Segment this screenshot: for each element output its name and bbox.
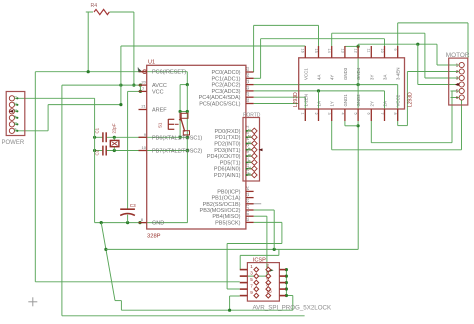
svg-text:6: 6 xyxy=(367,113,371,115)
svg-text:PB4(MISO): PB4(MISO) xyxy=(212,214,240,220)
label U1 left pin numbers xyxy=(137,66,147,222)
svg-text:R4: R4 xyxy=(91,3,98,9)
svg-text:3: 3 xyxy=(13,109,17,111)
svg-text:MOTOR: MOTOR xyxy=(446,52,470,59)
connector ICSP xyxy=(240,257,332,311)
resistor R4 xyxy=(91,3,110,14)
wire VCC2 below jog xyxy=(398,121,408,126)
stub PB2 gray mark xyxy=(250,203,261,205)
wire GND diag step h xyxy=(115,300,121,302)
wire 3-4EN riser xyxy=(397,23,399,46)
wire VCC riser to top xyxy=(120,46,122,105)
svg-text:S1: S1 xyxy=(158,122,163,128)
svg-text:5: 5 xyxy=(13,122,17,124)
svg-text:2: 2 xyxy=(13,102,17,104)
svg-text:PD1(TXD): PD1(TXD) xyxy=(215,135,241,141)
wire 1A drop xyxy=(318,91,320,121)
svg-text:7: 7 xyxy=(250,284,253,289)
wire ICSP right bus xyxy=(285,268,288,297)
svg-text:24: 24 xyxy=(246,73,250,77)
svg-text:3-4EN: 3-4EN xyxy=(396,68,401,80)
wire 4A drop xyxy=(318,25,320,46)
svg-text:PD0(RXD): PD0(RXD) xyxy=(215,129,241,135)
svg-text:3: 3 xyxy=(250,271,253,276)
wire GND3-GND4 jumper xyxy=(345,45,360,48)
svg-text:2: 2 xyxy=(246,126,250,128)
wire 3-4EN top run xyxy=(398,22,468,24)
svg-text:AVCC: AVCC xyxy=(152,83,167,89)
wire XTAL1 right lead xyxy=(107,136,188,139)
svg-text:7: 7 xyxy=(380,113,384,115)
label U1 left pin names xyxy=(152,70,202,227)
wire MOTOR6 riser xyxy=(461,100,463,150)
svg-text:VCC: VCC xyxy=(152,89,164,95)
connector PORTD xyxy=(243,113,263,182)
wire 3A drop xyxy=(384,39,386,46)
svg-text:POWER: POWER xyxy=(2,140,25,146)
wire PC3 row xyxy=(254,89,385,92)
label U1 right pin numbers xyxy=(246,67,250,222)
wire VCC decoupling drop xyxy=(127,91,129,208)
wire GND rise to ICSP bus xyxy=(286,296,292,311)
wire 2A drop xyxy=(384,91,386,121)
node switch top rail xyxy=(179,110,189,113)
wire PB4 drop xyxy=(266,216,268,276)
svg-text:PC1(ADC1): PC1(ADC1) xyxy=(211,76,240,82)
capacitor C1 xyxy=(95,127,107,142)
wire ICSP pin1 jog h xyxy=(240,254,279,256)
wire R4 right vertical xyxy=(132,12,135,87)
connector POWER xyxy=(2,92,25,146)
crystal Q1 xyxy=(110,137,119,150)
svg-text:PD6(AIN0): PD6(AIN0) xyxy=(214,167,241,173)
wire GND left vertical xyxy=(94,98,96,222)
wire 1Y drop xyxy=(331,121,333,150)
wire MOTOR1 lead xyxy=(437,64,451,66)
wire ladder right xyxy=(186,85,188,112)
wire GND bus riser right xyxy=(357,126,359,250)
svg-text:2: 2 xyxy=(314,113,318,115)
wire R4 right lead xyxy=(110,11,134,13)
wire 4Y top run xyxy=(332,32,425,34)
label U1 right pin names xyxy=(199,70,241,226)
wire 4Y riser xyxy=(331,33,333,46)
wire GND column inside U1 xyxy=(186,151,188,223)
svg-text:14: 14 xyxy=(327,49,331,53)
svg-text:23: 23 xyxy=(246,67,250,71)
svg-text:27: 27 xyxy=(246,92,250,96)
svg-text:1-2EN: 1-2EN xyxy=(303,94,308,106)
wire ICSP pin1 jog v2 xyxy=(239,255,241,269)
svg-text:PC5(ADC5/SCL): PC5(ADC5/SCL) xyxy=(199,102,240,108)
svg-text:PC6(/RESET): PC6(/RESET) xyxy=(152,70,186,76)
svg-text:10: 10 xyxy=(266,289,272,294)
svg-text:C1: C1 xyxy=(95,127,100,133)
wire 1Y run xyxy=(332,149,462,151)
svg-text:4: 4 xyxy=(13,115,17,117)
wire PB3 row xyxy=(254,209,275,211)
wire PC0 to 4A xyxy=(254,24,319,26)
wire POWER pin1 to GND xyxy=(17,97,94,99)
svg-text:9: 9 xyxy=(250,290,253,295)
svg-text:PB7(XTAL2/TOSC2): PB7(XTAL2/TOSC2) xyxy=(152,149,202,155)
wire MOTOR1 drop xyxy=(436,44,438,65)
svg-text:PD3(INT1): PD3(INT1) xyxy=(214,148,240,154)
svg-text:GND4: GND4 xyxy=(356,67,361,80)
wire PB5 drop2 xyxy=(226,244,228,290)
svg-text:6: 6 xyxy=(246,151,250,153)
svg-text:U1: U1 xyxy=(148,60,155,66)
wire GND diag step v xyxy=(120,301,122,311)
svg-text:16: 16 xyxy=(301,49,305,53)
wire MOTOR5 lead xyxy=(452,90,459,92)
svg-text:6: 6 xyxy=(13,128,17,130)
wire 1-2EN drop xyxy=(304,97,306,121)
svg-text:8: 8 xyxy=(393,113,397,115)
wire PB5 drop xyxy=(281,222,283,243)
svg-text:GND2: GND2 xyxy=(356,94,361,107)
node RESET ladder top xyxy=(180,83,189,86)
wire R4 left lead xyxy=(86,11,93,13)
svg-text:3: 3 xyxy=(327,113,331,115)
wire GND bottom run xyxy=(121,309,292,311)
svg-text:5: 5 xyxy=(354,113,358,115)
wire PC1 lead xyxy=(254,77,261,79)
wire PC2 drop to VCC2 xyxy=(397,85,399,121)
svg-text:GND3: GND3 xyxy=(343,67,348,80)
wire ICSP pin1 jog v1 xyxy=(278,249,280,255)
svg-text:1: 1 xyxy=(13,96,17,98)
svg-text:AREF: AREF xyxy=(152,108,167,114)
wire switch left leg xyxy=(179,112,182,139)
svg-text:PD5(T1): PD5(T1) xyxy=(220,160,241,166)
svg-text:5: 5 xyxy=(246,144,250,146)
svg-text:4: 4 xyxy=(340,113,344,115)
svg-text:10: 10 xyxy=(380,49,384,53)
svg-text:28: 28 xyxy=(246,98,250,102)
svg-text:PORTD: PORTD xyxy=(243,113,261,119)
wire PB5 row xyxy=(254,221,282,223)
svg-text:2: 2 xyxy=(266,263,269,268)
wire POWER pin6 up xyxy=(17,105,48,131)
wire VCC pin lead xyxy=(128,90,139,92)
svg-text:1Y: 1Y xyxy=(330,101,335,106)
svg-text:11: 11 xyxy=(367,49,371,53)
wire MOTOR3 lead xyxy=(425,77,451,79)
svg-text:26: 26 xyxy=(246,86,250,90)
svg-text:6: 6 xyxy=(247,160,251,162)
svg-text:PB3(MOSI/OC2): PB3(MOSI/OC2) xyxy=(200,208,241,214)
wire MOTOR5 riser xyxy=(451,91,453,143)
connector MOTOR xyxy=(446,52,470,105)
wire XTAL2 right lead xyxy=(107,149,188,152)
svg-text:6: 6 xyxy=(266,276,269,281)
wire GND bus horizontal xyxy=(106,248,358,251)
capacitor C3 xyxy=(120,203,136,215)
wire PC5 row xyxy=(254,103,298,105)
svg-text:PC2(ADC2): PC2(ADC2) xyxy=(211,83,240,89)
wire PC2 row xyxy=(254,83,398,86)
wire AVCC horizontal xyxy=(62,84,142,87)
wire R4 left vertical xyxy=(87,12,90,73)
svg-text:25: 25 xyxy=(246,79,250,83)
svg-text:17: 17 xyxy=(246,205,250,209)
wire PC1 riser xyxy=(260,39,262,79)
svg-text:PD7(AIN1): PD7(AIN1) xyxy=(214,173,241,179)
wire AVCC-VCC jumper xyxy=(139,85,142,93)
wire VCC2 riser xyxy=(406,72,408,126)
switch S1 xyxy=(158,113,190,135)
svg-text:3: 3 xyxy=(246,132,250,134)
svg-text:GND1: GND1 xyxy=(343,94,348,107)
svg-text:PC4(ADC4/SDA): PC4(ADC4/SDA) xyxy=(199,95,241,101)
svg-text:PB6(XTAL1/TOSC1): PB6(XTAL1/TOSC1) xyxy=(152,135,202,141)
svg-text:GND: GND xyxy=(152,221,164,227)
ic U1 right pin stubs xyxy=(246,72,254,222)
svg-text:4: 4 xyxy=(246,138,250,140)
svg-text:L293D: L293D xyxy=(293,92,299,107)
svg-text:2: 2 xyxy=(247,135,251,137)
svg-text:PB5(SCK): PB5(SCK) xyxy=(215,220,241,226)
wire PC4 row xyxy=(254,96,306,98)
svg-text:15: 15 xyxy=(246,192,250,196)
wire ladder left xyxy=(179,85,181,112)
svg-text:5: 5 xyxy=(250,277,253,282)
svg-text:9: 9 xyxy=(393,49,397,51)
svg-text:21: 21 xyxy=(141,104,146,109)
wire VCC left vertical xyxy=(61,85,63,316)
node GND bus on diagonal xyxy=(104,248,107,251)
svg-text:VCC1: VCC1 xyxy=(303,68,308,80)
svg-text:C2: C2 xyxy=(95,149,100,155)
wire GND1 below drop xyxy=(344,121,346,126)
svg-text:1: 1 xyxy=(247,129,251,131)
wire PB3 drop xyxy=(273,210,275,249)
svg-text:1: 1 xyxy=(301,113,305,115)
svg-text:4Y: 4Y xyxy=(330,75,335,80)
wire top GND run xyxy=(358,43,437,47)
svg-text:20: 20 xyxy=(141,80,146,85)
svg-text:1: 1 xyxy=(250,264,253,269)
svg-text:2A: 2A xyxy=(383,101,388,106)
wire PB5 to ICSP pin7 xyxy=(227,288,240,290)
wire RESET vertical left drop xyxy=(34,72,36,282)
svg-text:1A: 1A xyxy=(317,101,322,106)
svg-text:ICSP: ICSP xyxy=(253,257,266,263)
svg-text:3A: 3A xyxy=(383,75,388,80)
svg-text:L293D: L293D xyxy=(408,92,414,107)
wire MOTOR3 drop xyxy=(424,33,426,78)
wire 3-4EN right drop xyxy=(467,23,469,58)
svg-text:4A: 4A xyxy=(317,75,322,80)
wire RESET into U1 drop xyxy=(186,72,188,85)
wire PC1 to 3A xyxy=(261,38,385,40)
svg-text:PB1(OC1A): PB1(OC1A) xyxy=(211,196,240,202)
capacitor C2 xyxy=(95,146,107,156)
wire GND diagonal xyxy=(101,223,115,301)
origin cross xyxy=(28,297,37,306)
wire switch right leg xyxy=(186,112,189,153)
svg-text:328P: 328P xyxy=(147,234,161,240)
wire MOTOR2 lead xyxy=(407,71,450,73)
svg-text:3Y: 3Y xyxy=(369,75,374,80)
wire MOTOR4 lead xyxy=(418,84,451,86)
svg-text:PB0(ICP): PB0(ICP) xyxy=(217,189,240,195)
svg-text:2Y: 2Y xyxy=(369,101,374,106)
svg-text:PC3(ADC3): PC3(ADC3) xyxy=(211,89,240,95)
svg-text:PC0(ADC0): PC0(ADC0) xyxy=(211,70,240,76)
svg-text:C3: C3 xyxy=(130,203,136,208)
svg-text:8: 8 xyxy=(266,282,269,287)
wire XTAL2 left lead xyxy=(93,149,102,152)
wire GND mid vertical xyxy=(357,46,360,127)
wire ICSP pin9 drop xyxy=(228,296,231,312)
svg-text:22pF: 22pF xyxy=(112,123,117,133)
svg-text:12: 12 xyxy=(354,49,358,53)
ic U1 left pin stubs xyxy=(138,67,147,222)
svg-text:8: 8 xyxy=(247,173,251,175)
svg-text:13: 13 xyxy=(340,49,344,53)
svg-text:4: 4 xyxy=(247,147,251,149)
wire GND1-GND2 jumper xyxy=(345,125,358,127)
svg-text:10: 10 xyxy=(142,145,147,150)
svg-text:19: 19 xyxy=(246,217,250,221)
svg-text:3: 3 xyxy=(247,141,251,143)
svg-text:5: 5 xyxy=(247,154,251,156)
wire 2Y drop xyxy=(370,121,372,143)
wire POWER pin6 to VCC xyxy=(48,103,122,106)
wire 2Y run xyxy=(371,142,452,144)
svg-text:18: 18 xyxy=(246,211,250,215)
wire PB4 to ICSP pin3 xyxy=(240,275,267,277)
wire GND rail xyxy=(95,221,188,224)
svg-text:7: 7 xyxy=(247,166,251,168)
wire PB4 row xyxy=(254,215,267,217)
wire VCC bottom run xyxy=(62,315,305,317)
wire ICSP pin9 lead xyxy=(230,295,240,297)
svg-text:15: 15 xyxy=(314,49,318,53)
svg-text:PD4(XCK/T0): PD4(XCK/T0) xyxy=(207,154,241,160)
ic U1 box xyxy=(147,60,246,240)
ic L293D xyxy=(293,46,414,121)
svg-text:AVR_SPI_PROG_5X2LOCK: AVR_SPI_PROG_5X2LOCK xyxy=(253,304,333,311)
wire RESET to ICSP pin5 xyxy=(35,281,240,283)
wire MOTOR4 drop xyxy=(417,44,419,84)
wire C3 bottom lead xyxy=(127,215,129,223)
wire RESET horizontal xyxy=(35,71,187,73)
svg-text:16: 16 xyxy=(246,198,250,202)
wire PC0 riser xyxy=(253,25,255,72)
svg-text:14: 14 xyxy=(246,186,250,190)
wire VCC1 top run xyxy=(121,45,305,47)
svg-text:VCC2: VCC2 xyxy=(396,94,401,106)
label 22pF xyxy=(112,123,117,133)
wire PB5 jog xyxy=(227,243,282,245)
wire XTAL1 left lead xyxy=(93,136,102,139)
svg-text:4: 4 xyxy=(266,269,269,274)
svg-text:PB2(SS/OC1B): PB2(SS/OC1B) xyxy=(203,202,241,208)
svg-text:PD2(INT0): PD2(INT0) xyxy=(214,142,240,148)
